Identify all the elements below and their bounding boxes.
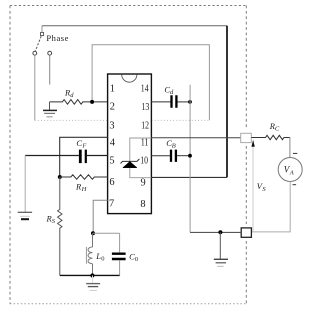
svg-text:B: B	[172, 143, 176, 150]
internal wire pin11 to zener	[130, 138, 152, 178]
zener diode triangle	[123, 162, 137, 168]
svg-text:8: 8	[140, 199, 145, 210]
meter VA circle	[278, 158, 302, 182]
svg-text:0: 0	[101, 256, 104, 263]
svg-text:9: 9	[140, 177, 145, 188]
switch stem to top wire	[41, 26, 43, 33]
wire: pin 11 to boundary	[151, 137, 240, 139]
dashed boundary border	[10, 6, 246, 304]
wire: top net from switch to right side	[42, 25, 227, 27]
switch left contact circle	[33, 51, 37, 55]
svg-text:Phase: Phase	[46, 33, 68, 43]
ground (CF)	[18, 212, 32, 219]
ground (tank)	[86, 276, 100, 291]
svg-text:4: 4	[110, 137, 116, 148]
resistor RS	[58, 177, 62, 275]
svg-text:11: 11	[141, 138, 149, 149]
minus sign (top of VA)	[293, 152, 297, 154]
capacitor CB right lead	[177, 155, 190, 157]
wire: tank bottom horizontal	[60, 274, 120, 276]
boundary feedthrough (bottom)	[241, 228, 251, 237]
wire: pin4 loop	[60, 137, 108, 177]
svg-text:C: C	[275, 126, 280, 133]
capacitor C0 top lead	[119, 233, 121, 252]
wire: pin 9 horizontal	[151, 176, 227, 178]
capacitor Cd right lead	[178, 101, 191, 103]
capacitor C0 plates	[112, 254, 126, 259]
minus sign (bottom of VA)	[293, 184, 297, 186]
switch SW1 Phase : top contact square	[41, 33, 44, 36]
capacitor C0 bottom lead	[119, 260, 121, 275]
IC U1 body	[108, 74, 152, 214]
svg-text:3: 3	[109, 121, 114, 132]
wire: dotted row3 right segment	[152, 119, 210, 121]
svg-text:0: 0	[135, 256, 138, 263]
svg-text:10: 10	[140, 156, 148, 167]
junction node CB	[188, 154, 192, 158]
capacitor CF plates	[79, 150, 82, 164]
switch right contact circle	[48, 51, 52, 55]
svg-text:2: 2	[110, 102, 115, 113]
svg-text:13: 13	[142, 102, 150, 113]
capacitor CB plates	[171, 150, 176, 162]
svg-text:12: 12	[141, 121, 149, 132]
wire: CF to ground	[24, 156, 26, 212]
svg-text:14: 14	[141, 84, 149, 95]
junction node pin2/Rd	[90, 100, 94, 104]
wire: right contact stub down	[49, 55, 51, 84]
inductor L0 core line	[85, 247, 87, 264]
wire: gray vertical through Cd/CB junctions	[189, 85, 191, 233]
wire: pin 7 down to tank	[93, 200, 107, 233]
IC notch	[122, 75, 137, 83]
svg-text:1: 1	[110, 84, 115, 95]
inductor L0	[88, 233, 93, 275]
wire: gray feedback loop pin2 to switch	[92, 45, 209, 121]
resistor RH	[60, 175, 108, 179]
junction node tank top	[91, 231, 95, 235]
junction node Cd	[188, 100, 192, 104]
wire: tank top horizontal	[93, 232, 120, 234]
wire: left contact down	[34, 55, 36, 120]
switch lever (dashed)	[35, 36, 41, 51]
wire: ground bus to boundary square	[190, 231, 241, 233]
VS arrow head	[251, 140, 254, 147]
ground (Rd)	[43, 102, 57, 117]
wire: VA bottom to boundary square	[251, 182, 290, 232]
svg-text:A: A	[289, 169, 294, 176]
svg-text:7: 7	[109, 198, 114, 209]
ground (right)	[214, 232, 228, 266]
junction node pin4-loop / RH / RS	[58, 175, 62, 179]
svg-text:H: H	[81, 186, 87, 193]
svg-text:5: 5	[109, 156, 114, 167]
junction node ground bus	[218, 230, 222, 234]
capacitor CB left lead	[151, 155, 170, 157]
capacitor CF right lead	[87, 155, 108, 157]
wire: right vertical bus x=227	[226, 26, 228, 178]
boundary feedthrough (top)	[241, 133, 252, 142]
wire: dotted row3 left segment	[35, 119, 108, 121]
VS measurement arrow stem	[252, 147, 254, 232]
junction node tank bottom	[90, 273, 94, 277]
resistor Rd	[50, 100, 108, 105]
capacitor Cd left lead	[151, 101, 170, 103]
wire: RC down to meter	[289, 138, 291, 158]
capacitor Cd plates	[172, 95, 177, 108]
svg-text:6: 6	[109, 177, 114, 188]
zener diode (internal) cathode	[121, 159, 140, 164]
resistor RC	[251, 135, 290, 139]
capacitor CF left lead	[25, 155, 79, 157]
